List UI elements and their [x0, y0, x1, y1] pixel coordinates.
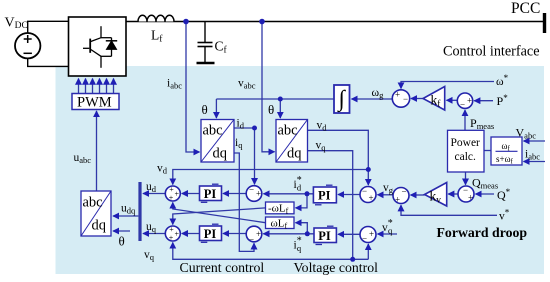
svg-text:Cf: Cf: [215, 39, 228, 56]
svg-text:PI: PI: [318, 188, 331, 202]
svg-text:θ: θ: [119, 234, 125, 249]
svg-text:PI: PI: [318, 229, 331, 243]
svg-text:PCC: PCC: [511, 0, 540, 17]
svg-text:θ: θ: [202, 102, 208, 117]
svg-text:−: −: [460, 100, 465, 110]
svg-text:+: +: [175, 190, 180, 199]
svg-text:+: +: [256, 189, 261, 199]
svg-text:+: +: [256, 229, 261, 239]
svg-text:+: +: [175, 230, 180, 239]
svg-text:dq: dq: [287, 146, 302, 162]
svg-text:+: +: [395, 90, 400, 100]
svg-text:+: +: [368, 193, 373, 203]
svg-text:abc: abc: [83, 195, 103, 211]
svg-text:+: +: [169, 225, 174, 234]
svg-text:-ωLf: -ωLf: [268, 203, 289, 216]
svg-text:−: −: [362, 186, 367, 196]
svg-text:+: +: [169, 194, 174, 203]
svg-text:−: −: [403, 94, 408, 104]
svg-text:+: +: [369, 229, 374, 239]
svg-text:+: +: [395, 195, 400, 205]
svg-text:Voltage control: Voltage control: [294, 260, 379, 275]
svg-text:+: +: [468, 193, 473, 203]
svg-text:PI: PI: [204, 187, 217, 201]
svg-text:θ: θ: [268, 102, 274, 117]
svg-text:−: −: [249, 235, 254, 245]
svg-text:VDC: VDC: [5, 16, 28, 32]
svg-text:−: −: [401, 187, 406, 197]
svg-text:Current control: Current control: [180, 260, 265, 275]
svg-text:calc.: calc.: [455, 151, 477, 163]
svg-text:+: +: [467, 96, 472, 106]
svg-text:Power: Power: [451, 137, 481, 149]
svg-text:Lf: Lf: [151, 28, 163, 45]
svg-text:PWM: PWM: [77, 95, 112, 111]
svg-text:+: +: [169, 234, 174, 243]
svg-text:abc: abc: [203, 123, 223, 139]
svg-text:dq: dq: [213, 146, 228, 162]
svg-text:abc: abc: [278, 123, 298, 139]
svg-text:PI: PI: [204, 227, 217, 241]
svg-text:+: +: [169, 185, 174, 194]
svg-text:Forward droop: Forward droop: [437, 225, 528, 240]
svg-text:Control interface: Control interface: [443, 44, 540, 60]
svg-text:−: −: [249, 185, 254, 195]
svg-text:−: −: [362, 234, 367, 244]
svg-text:dq: dq: [92, 218, 107, 234]
